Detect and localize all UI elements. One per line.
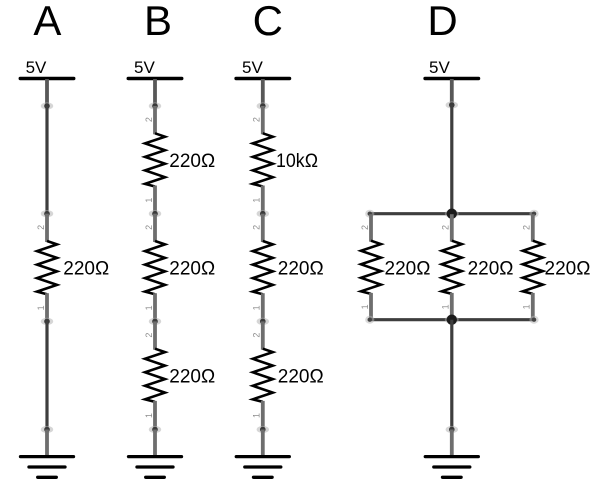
junction node: bottom bus / wire junction (D) [445, 315, 459, 325]
resistor R6 (C) pin 2 lead [261, 214, 265, 242]
node: R1 pin 1 / wire joint (A) [41, 318, 53, 325]
5V supply pin (B) [153, 79, 157, 106]
resistor R7 (C) zigzag body [253, 349, 273, 402]
svg-text:2: 2 [252, 117, 262, 122]
svg-text:A: A [33, 0, 61, 44]
svg-text:2: 2 [252, 333, 262, 338]
svg-text:B: B [144, 0, 172, 44]
resistor R3 (B) pin 2 lead [153, 214, 157, 242]
svg-text:1: 1 [144, 305, 154, 310]
ground pin (A) [45, 430, 49, 457]
junction node: top bus / wire junction (D) [445, 209, 459, 219]
wire: top bus (D) [369, 212, 534, 215]
svg-text:5V: 5V [134, 58, 155, 77]
node: 5V pin / wire joint (A) [41, 102, 53, 109]
resistor R5 (C) pin 2 lead [261, 106, 265, 134]
resistor R5 (C) pin 1 lead [261, 186, 265, 214]
node: wire / ground joint (D) [446, 426, 458, 433]
ground symbol (C) [236, 457, 289, 478]
5V supply pin (D) [450, 79, 454, 106]
resistor R6 (C) zigzag body [253, 241, 273, 294]
svg-text:10kΩ: 10kΩ [276, 151, 318, 172]
svg-text:1: 1 [522, 304, 532, 309]
resistor R1 (A) pin 2 lead [45, 214, 49, 242]
svg-text:220Ω: 220Ω [63, 259, 109, 280]
svg-text:2: 2 [144, 117, 154, 122]
svg-text:1: 1 [36, 305, 46, 310]
resistor R8 (D) pin 2 lead [369, 214, 373, 242]
svg-text:D: D [427, 0, 457, 44]
resistor R4 (B) pin 1 lead [153, 401, 157, 429]
resistor R1 (A) zigzag body [37, 241, 57, 294]
svg-text:220Ω: 220Ω [169, 366, 215, 387]
5V supply pin (C) [261, 79, 265, 106]
power supply 5V rail (C) [236, 77, 289, 80]
resistor R9 (D) pin 1 lead [450, 293, 454, 320]
svg-text:2: 2 [360, 225, 370, 230]
resistor R2 (B) zigzag body [145, 133, 165, 186]
svg-text:220Ω: 220Ω [278, 259, 324, 280]
node: bottom bus left corner (D) [365, 316, 374, 324]
node: 5V pin / wire joint (D) [446, 101, 458, 108]
svg-text:2: 2 [252, 225, 262, 230]
resistor R10 (D) zigzag body [523, 241, 543, 294]
svg-text:1: 1 [441, 304, 451, 309]
power supply 5V rail (B) [128, 77, 182, 80]
node: R2 pin 1 / R3 pin 2 joint (B) [149, 210, 161, 217]
resistor R8 (D) pin 1 lead [369, 293, 373, 320]
ground symbol (B) [129, 457, 182, 478]
resistor R2 (B) pin 1 lead [153, 186, 157, 214]
resistor R4 (B) zigzag body [145, 349, 165, 402]
svg-text:1: 1 [252, 198, 262, 203]
power supply 5V rail (A) [20, 77, 74, 80]
svg-text:5V: 5V [429, 58, 450, 77]
svg-text:1: 1 [252, 305, 262, 310]
svg-text:2: 2 [144, 333, 154, 338]
5V supply pin (A) [45, 79, 49, 106]
node: 5V pin / R5 pin 2 joint (C) [257, 102, 269, 109]
resistor R2 (B) pin 2 lead [153, 106, 157, 134]
svg-text:2: 2 [36, 225, 46, 230]
ground symbol (A) [21, 457, 74, 478]
wire: bottom bus to ground (D) [450, 320, 453, 430]
resistor R5 (C) zigzag body [253, 133, 273, 186]
node: R3 pin 1 / R4 pin 2 joint (B) [149, 318, 161, 325]
svg-text:2: 2 [522, 225, 532, 230]
resistor R7 (C) pin 1 lead [261, 401, 265, 429]
svg-text:220Ω: 220Ω [169, 259, 215, 280]
svg-text:1: 1 [144, 198, 154, 203]
ground pin (C) [261, 430, 265, 457]
wire: 5V to R1 (A) [45, 106, 48, 214]
node: R6 pin 1 / R7 pin 2 joint (C) [257, 318, 269, 325]
ground pin (B) [153, 430, 157, 457]
resistor R9 (D) zigzag body [442, 241, 462, 294]
resistor R8 (D) zigzag body [361, 241, 381, 294]
svg-text:2: 2 [441, 225, 451, 230]
node: bottom bus right corner (D) [529, 316, 538, 324]
resistor R7 (C) pin 2 lead [261, 321, 265, 349]
wire: 5V to top bus (D) [450, 105, 453, 214]
resistor R4 (B) pin 2 lead [153, 321, 157, 349]
resistor R10 (D) pin 2 lead [531, 214, 535, 242]
node: wire / R1 pin 2 joint (A) [41, 210, 53, 217]
node: top bus right corner (D) [529, 210, 538, 218]
svg-text:C: C [253, 0, 283, 44]
svg-text:220Ω: 220Ω [468, 258, 514, 279]
ground pin (D) [450, 430, 454, 457]
power supply 5V rail (D) [425, 77, 479, 80]
node: wire / ground joint (A) [41, 426, 53, 433]
wire: bottom bus (D) [369, 318, 534, 321]
svg-text:1: 1 [360, 304, 370, 309]
svg-text:1: 1 [144, 413, 154, 418]
node: 5V pin / R2 pin 2 joint (B) [149, 102, 161, 109]
svg-text:220Ω: 220Ω [169, 151, 215, 172]
resistor R10 (D) pin 1 lead [531, 293, 535, 320]
resistor R3 (B) zigzag body [145, 241, 165, 294]
svg-text:220Ω: 220Ω [278, 366, 324, 387]
node: R5 pin 1 / R6 pin 2 joint (C) [257, 210, 269, 217]
node: R4 pin 1 / ground joint (B) [149, 426, 161, 433]
node: top bus left corner (D) [365, 210, 374, 218]
resistor R3 (B) pin 1 lead [153, 293, 157, 321]
wire: R1 to ground (A) [45, 321, 48, 429]
ground symbol (D) [425, 457, 478, 478]
resistor R6 (C) pin 1 lead [261, 293, 265, 321]
resistor R1 (A) pin 1 lead [45, 293, 49, 321]
resistor R9 (D) pin 2 lead [450, 214, 454, 242]
svg-text:5V: 5V [26, 58, 47, 77]
svg-text:5V: 5V [242, 58, 263, 77]
node: R7 pin 1 / ground joint (C) [257, 426, 269, 433]
svg-text:2: 2 [144, 225, 154, 230]
svg-text:220Ω: 220Ω [545, 258, 591, 279]
svg-text:1: 1 [252, 413, 262, 418]
svg-text:220Ω: 220Ω [385, 258, 431, 279]
